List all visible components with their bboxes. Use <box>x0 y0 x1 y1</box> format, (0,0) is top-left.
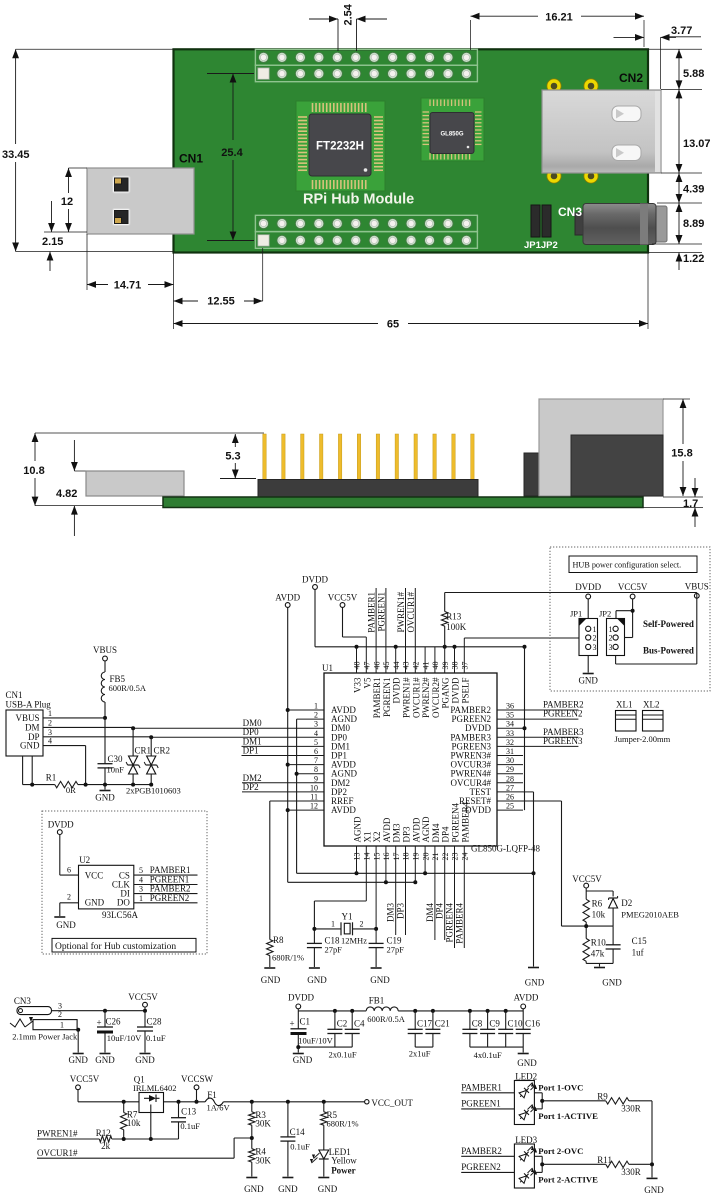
svg-text:AGND: AGND <box>353 816 363 842</box>
svg-text:4: 4 <box>139 876 143 885</box>
svg-text:GND: GND <box>135 1055 155 1065</box>
svg-text:1uf: 1uf <box>632 948 644 958</box>
svg-text:1.22: 1.22 <box>683 253 704 265</box>
svg-text:GND: GND <box>293 1055 313 1065</box>
svg-text:25: 25 <box>506 802 514 811</box>
svg-text:680R/1%: 680R/1% <box>327 1119 359 1129</box>
svg-text:PAMBER1: PAMBER1 <box>367 592 377 633</box>
svg-text:8.89: 8.89 <box>683 218 704 230</box>
svg-text:Bus-Powered: Bus-Powered <box>643 646 694 656</box>
svg-text:1: 1 <box>331 920 335 929</box>
svg-text:PAMBER4: PAMBER4 <box>460 801 470 842</box>
svg-text:HUB power configuration select: HUB power configuration select. <box>573 561 682 570</box>
svg-text:XL1: XL1 <box>616 700 633 710</box>
svg-text:RPi Hub Module: RPi Hub Module <box>303 192 414 208</box>
svg-text:PWREN2#: PWREN2# <box>421 677 431 718</box>
svg-text:330R: 330R <box>621 1104 641 1114</box>
svg-text:VCC5V: VCC5V <box>328 593 358 603</box>
svg-text:FT2232H: FT2232H <box>316 141 364 153</box>
svg-text:2: 2 <box>67 893 71 902</box>
svg-text:13: 13 <box>353 853 362 861</box>
svg-text:42: 42 <box>412 662 421 670</box>
svg-text:CR1: CR1 <box>135 746 152 756</box>
svg-text:GL850G: GL850G <box>440 132 463 138</box>
svg-text:R6: R6 <box>592 899 603 909</box>
svg-text:PWREN1#: PWREN1# <box>396 592 406 633</box>
svg-text:PGREEN1: PGREEN1 <box>461 1099 501 1109</box>
svg-text:GND: GND <box>602 978 622 988</box>
svg-text:46: 46 <box>372 662 381 670</box>
svg-text:PGREEN2: PGREEN2 <box>150 893 190 903</box>
svg-text:PGANG: PGANG <box>441 677 451 709</box>
svg-text:CN3: CN3 <box>558 205 582 219</box>
svg-text:C8: C8 <box>472 1019 483 1029</box>
svg-text:100K: 100K <box>446 622 467 632</box>
svg-text:4x0.1uF: 4x0.1uF <box>474 1050 502 1060</box>
svg-text:19: 19 <box>412 853 421 861</box>
svg-text:DP3: DP3 <box>396 903 406 920</box>
svg-text:34: 34 <box>506 720 514 729</box>
svg-text:C28: C28 <box>147 1017 163 1027</box>
svg-text:6: 6 <box>67 866 71 875</box>
svg-text:DP4: DP4 <box>441 826 451 843</box>
svg-text:1.7: 1.7 <box>683 498 698 510</box>
svg-text:2: 2 <box>593 634 597 643</box>
svg-text:15: 15 <box>372 853 381 861</box>
svg-text:10k: 10k <box>127 1118 141 1128</box>
svg-text:C9: C9 <box>489 1019 500 1029</box>
svg-text:JP1JP2: JP1JP2 <box>524 240 558 251</box>
svg-text:24: 24 <box>461 853 470 861</box>
svg-text:15.8: 15.8 <box>671 448 692 460</box>
svg-text:GND: GND <box>56 920 76 930</box>
svg-text:CN1: CN1 <box>6 690 23 700</box>
svg-text:GND: GND <box>278 1184 298 1194</box>
svg-text:35: 35 <box>506 711 514 720</box>
svg-text:37: 37 <box>461 662 470 670</box>
svg-text:28: 28 <box>506 774 514 783</box>
svg-text:21: 21 <box>431 853 440 861</box>
svg-text:DM4: DM4 <box>431 823 441 843</box>
svg-text:USB-A Plug: USB-A Plug <box>6 700 52 710</box>
svg-text:GND: GND <box>517 1058 537 1068</box>
svg-text:AVDD: AVDD <box>275 593 300 603</box>
svg-text:27: 27 <box>506 783 514 792</box>
svg-text:VBUS: VBUS <box>685 582 709 592</box>
svg-text:10k: 10k <box>592 910 606 920</box>
svg-text:2: 2 <box>360 920 364 929</box>
svg-text:14.71: 14.71 <box>114 280 142 292</box>
svg-text:R1: R1 <box>46 773 57 783</box>
svg-text:10uF/10V: 10uF/10V <box>107 1033 142 1043</box>
svg-text:680R/1%: 680R/1% <box>272 953 304 963</box>
svg-text:9: 9 <box>314 774 318 783</box>
svg-text:DVDD: DVDD <box>451 677 461 703</box>
svg-text:25.4: 25.4 <box>221 147 243 159</box>
svg-text:PAMBER1: PAMBER1 <box>461 1083 502 1093</box>
svg-text:PGREEN2: PGREEN2 <box>461 1162 501 1172</box>
svg-text:C15: C15 <box>632 936 648 946</box>
svg-text:GND: GND <box>578 676 598 686</box>
svg-text:32: 32 <box>506 738 514 747</box>
svg-text:3: 3 <box>609 643 613 652</box>
svg-text:2: 2 <box>58 1010 62 1019</box>
svg-text:1A/6V: 1A/6V <box>207 1103 231 1113</box>
svg-text:U1: U1 <box>322 663 333 673</box>
svg-text:F1: F1 <box>207 1090 217 1100</box>
svg-text:600R/0.5A: 600R/0.5A <box>367 1014 405 1024</box>
svg-text:OVCUR1#: OVCUR1# <box>411 677 421 718</box>
svg-text:DM3: DM3 <box>386 903 396 923</box>
svg-text:C13: C13 <box>181 1107 197 1117</box>
svg-text:2x1uF: 2x1uF <box>409 1049 431 1059</box>
svg-text:18: 18 <box>402 853 411 861</box>
svg-text:0.1uF: 0.1uF <box>180 1121 200 1131</box>
svg-text:VBUS: VBUS <box>15 713 39 723</box>
svg-text:30K: 30K <box>255 1155 271 1165</box>
svg-text:2xPGB1010603: 2xPGB1010603 <box>126 786 181 796</box>
svg-text:AVDD: AVDD <box>382 817 392 842</box>
svg-text:GND: GND <box>95 793 115 803</box>
svg-text:0.1uF: 0.1uF <box>290 1142 310 1152</box>
svg-text:29: 29 <box>506 765 514 774</box>
svg-text:10: 10 <box>310 783 318 792</box>
svg-text:DVDD: DVDD <box>302 575 328 585</box>
svg-text:C4: C4 <box>354 1019 365 1029</box>
svg-text:93LC56A: 93LC56A <box>102 910 139 920</box>
svg-text:PGREEN4: PGREEN4 <box>451 802 461 842</box>
svg-text:43: 43 <box>402 662 411 670</box>
svg-text:Self-Powered: Self-Powered <box>643 619 694 629</box>
svg-text:44: 44 <box>392 662 401 670</box>
svg-text:Y1: Y1 <box>342 912 353 922</box>
svg-text:R8: R8 <box>273 935 284 945</box>
svg-text:AVDD: AVDD <box>411 817 421 842</box>
svg-text:DP2: DP2 <box>243 782 259 792</box>
svg-text:C14: C14 <box>290 1127 306 1137</box>
svg-text:OVCUR1#: OVCUR1# <box>406 592 416 633</box>
svg-text:12: 12 <box>310 802 318 811</box>
svg-text:Port 1-OVC: Port 1-OVC <box>538 1083 583 1093</box>
svg-text:R10: R10 <box>591 938 607 948</box>
svg-text:47: 47 <box>363 662 372 670</box>
svg-text:65: 65 <box>387 319 399 331</box>
svg-text:DP1: DP1 <box>243 746 259 756</box>
svg-text:PSELF: PSELF <box>460 678 470 704</box>
svg-text:39: 39 <box>441 662 450 670</box>
svg-text:33: 33 <box>506 729 514 738</box>
svg-text:C26: C26 <box>106 1017 122 1027</box>
svg-text:12.55: 12.55 <box>207 296 235 308</box>
svg-text:DM3: DM3 <box>392 823 402 843</box>
svg-text:C1: C1 <box>300 1017 311 1027</box>
svg-text:16: 16 <box>382 853 391 861</box>
svg-text:C2: C2 <box>337 1019 348 1029</box>
svg-text:R12: R12 <box>96 1128 111 1138</box>
svg-text:C17: C17 <box>417 1019 433 1029</box>
svg-text:PAMBER4: PAMBER4 <box>454 903 464 944</box>
svg-text:GL850G-LQFP-48: GL850G-LQFP-48 <box>471 844 540 854</box>
svg-text:45: 45 <box>382 662 391 670</box>
svg-text:3: 3 <box>139 885 143 894</box>
svg-text:+: + <box>290 1019 295 1029</box>
svg-text:12: 12 <box>61 196 73 208</box>
svg-text:2: 2 <box>609 634 613 643</box>
svg-text:48: 48 <box>353 662 362 670</box>
svg-text:5: 5 <box>314 738 318 747</box>
svg-text:R13: R13 <box>446 612 462 622</box>
svg-text:1: 1 <box>609 625 613 634</box>
svg-text:Port 2-ACTIVE: Port 2-ACTIVE <box>538 1175 598 1185</box>
svg-text:27pF: 27pF <box>387 945 405 955</box>
svg-text:Port 1-ACTIVE: Port 1-ACTIVE <box>538 1111 598 1121</box>
svg-text:GND: GND <box>370 975 390 985</box>
svg-text:JP2: JP2 <box>599 609 611 619</box>
svg-text:4: 4 <box>314 729 318 738</box>
svg-text:6: 6 <box>314 747 318 756</box>
svg-text:GND: GND <box>95 1055 115 1065</box>
svg-text:Power: Power <box>331 1166 356 1176</box>
svg-text:DVDD: DVDD <box>288 993 314 1003</box>
svg-text:CN1: CN1 <box>179 152 203 166</box>
svg-text:10nF: 10nF <box>107 765 125 775</box>
svg-text:3.77: 3.77 <box>671 25 692 37</box>
svg-text:1: 1 <box>139 894 143 903</box>
svg-text:VBUS: VBUS <box>93 645 117 655</box>
svg-text:PMEG2010AEB: PMEG2010AEB <box>621 910 679 920</box>
svg-text:4.39: 4.39 <box>683 184 704 196</box>
svg-text:11: 11 <box>310 793 318 802</box>
svg-text:DP3: DP3 <box>402 826 412 843</box>
svg-text:3: 3 <box>314 720 318 729</box>
svg-text:2.1mm Power Jack: 2.1mm Power Jack <box>12 1032 78 1042</box>
svg-text:PAMBER2: PAMBER2 <box>461 1146 502 1156</box>
svg-text:XL2: XL2 <box>643 700 660 710</box>
svg-text:D2: D2 <box>621 898 632 908</box>
svg-text:PGREEN3: PGREEN3 <box>543 736 583 746</box>
svg-text:Yellow: Yellow <box>331 1156 357 1166</box>
svg-text:DVDD: DVDD <box>392 677 402 703</box>
svg-text:2.54: 2.54 <box>343 3 355 25</box>
svg-text:PAMBER1: PAMBER1 <box>372 678 382 719</box>
svg-text:OVCUR2#: OVCUR2# <box>431 677 441 718</box>
svg-text:CN3: CN3 <box>14 996 32 1006</box>
svg-text:7: 7 <box>314 756 318 765</box>
svg-text:10uF/10V: 10uF/10V <box>298 1036 333 1046</box>
svg-text:DM4: DM4 <box>425 903 435 923</box>
svg-text:PWREN1#: PWREN1# <box>402 677 412 718</box>
svg-text:GND: GND <box>307 975 327 985</box>
svg-text:22: 22 <box>441 853 450 861</box>
svg-text:GND: GND <box>318 1184 338 1194</box>
svg-text:33.45: 33.45 <box>2 149 30 161</box>
svg-text:PGREEN2: PGREEN2 <box>543 709 583 719</box>
svg-text:VCC5V: VCC5V <box>128 992 158 1002</box>
svg-text:GND: GND <box>525 978 545 988</box>
svg-text:R11: R11 <box>597 1155 612 1165</box>
svg-text:GND: GND <box>68 1055 88 1065</box>
svg-text:2: 2 <box>314 711 318 720</box>
svg-text:47k: 47k <box>591 949 605 959</box>
svg-text:17: 17 <box>392 853 401 861</box>
svg-text:4: 4 <box>48 737 52 746</box>
svg-text:R9: R9 <box>597 1092 608 1102</box>
svg-text:IRLML6402: IRLML6402 <box>133 1083 176 1093</box>
svg-text:U2: U2 <box>79 855 90 865</box>
svg-text:12MHz: 12MHz <box>341 936 367 946</box>
svg-text:1: 1 <box>48 709 52 718</box>
svg-text:38: 38 <box>451 662 460 670</box>
svg-text:GND: GND <box>244 1184 264 1194</box>
svg-text:FB1: FB1 <box>369 996 385 1006</box>
svg-text:X1: X1 <box>362 832 372 843</box>
svg-text:PWREN1#: PWREN1# <box>37 1129 78 1139</box>
svg-text:600R/0.5A: 600R/0.5A <box>109 683 147 693</box>
svg-text:16.21: 16.21 <box>545 12 573 24</box>
svg-text:3: 3 <box>593 643 597 652</box>
svg-text:GND: GND <box>644 1185 664 1195</box>
svg-text:OVCUR1#: OVCUR1# <box>37 1148 78 1158</box>
svg-text:10.8: 10.8 <box>23 465 44 477</box>
svg-text:GND: GND <box>20 741 40 751</box>
svg-text:3: 3 <box>48 728 52 737</box>
svg-text:AVDD: AVDD <box>331 805 356 815</box>
svg-text:31: 31 <box>506 747 514 756</box>
svg-text:C21: C21 <box>435 1019 450 1029</box>
svg-text:2: 2 <box>48 718 52 727</box>
svg-text:1: 1 <box>314 702 318 711</box>
svg-text:PGREEN1: PGREEN1 <box>382 678 392 718</box>
svg-text:C30: C30 <box>108 754 124 764</box>
svg-text:VCC: VCC <box>85 870 104 880</box>
svg-text:AVDD: AVDD <box>514 993 539 1003</box>
svg-text:VCC_OUT: VCC_OUT <box>371 1098 413 1108</box>
svg-text:AGND: AGND <box>421 816 431 842</box>
svg-text:40: 40 <box>431 662 440 670</box>
svg-text:GND: GND <box>261 975 281 985</box>
svg-text:27pF: 27pF <box>325 945 343 955</box>
svg-text:36: 36 <box>506 702 514 711</box>
svg-text:DO: DO <box>117 898 130 908</box>
svg-text:VCC5V: VCC5V <box>572 874 602 884</box>
svg-text:0.1uF: 0.1uF <box>146 1033 166 1043</box>
svg-text:CR2: CR2 <box>154 746 171 756</box>
svg-text:30K: 30K <box>255 1119 271 1129</box>
svg-text:DVDD: DVDD <box>48 820 74 830</box>
svg-text:JP1: JP1 <box>570 609 582 619</box>
svg-text:14: 14 <box>363 853 372 861</box>
svg-text:PGREEN4: PGREEN4 <box>445 903 455 943</box>
svg-text:Optional for Hub customization: Optional for Hub customization <box>55 941 176 952</box>
svg-text:GND: GND <box>85 898 105 908</box>
svg-text:2k: 2k <box>101 1141 111 1151</box>
svg-text:2.15: 2.15 <box>42 236 63 248</box>
svg-text:C16: C16 <box>525 1019 541 1029</box>
svg-text:5.88: 5.88 <box>683 68 704 80</box>
svg-text:1: 1 <box>593 625 597 634</box>
svg-text:26: 26 <box>506 793 514 802</box>
svg-text:5.3: 5.3 <box>225 451 240 463</box>
svg-text:VCC5V: VCC5V <box>618 582 648 592</box>
svg-text:PGREEN1: PGREEN1 <box>376 592 386 632</box>
svg-text:C10: C10 <box>508 1019 524 1029</box>
svg-text:0R: 0R <box>66 785 76 795</box>
svg-text:VCCSW: VCCSW <box>181 1074 214 1084</box>
svg-text:V5: V5 <box>362 677 372 688</box>
svg-text:VCC5V: VCC5V <box>70 1074 100 1084</box>
svg-text:23: 23 <box>451 853 460 861</box>
svg-text:X2: X2 <box>372 832 382 843</box>
svg-text:CN2: CN2 <box>619 71 643 85</box>
svg-text:330R: 330R <box>621 1167 641 1177</box>
svg-text:+: + <box>97 1018 102 1028</box>
svg-text:Port 2-OVC: Port 2-OVC <box>538 1146 583 1156</box>
svg-text:DVDD: DVDD <box>575 582 601 592</box>
svg-text:3: 3 <box>58 1002 62 1011</box>
svg-text:4.82: 4.82 <box>56 488 77 500</box>
svg-text:13.07: 13.07 <box>683 138 711 150</box>
svg-text:5: 5 <box>139 866 143 875</box>
svg-text:20: 20 <box>421 853 430 861</box>
svg-text:Jumper-2.00mm: Jumper-2.00mm <box>615 734 671 744</box>
svg-text:8: 8 <box>314 765 318 774</box>
svg-text:30: 30 <box>506 756 514 765</box>
svg-text:1: 1 <box>60 1021 64 1030</box>
svg-text:DP4: DP4 <box>435 903 445 920</box>
svg-text:41: 41 <box>421 662 430 670</box>
svg-text:2x0.1uF: 2x0.1uF <box>329 1050 357 1060</box>
svg-text:V33: V33 <box>353 677 363 693</box>
